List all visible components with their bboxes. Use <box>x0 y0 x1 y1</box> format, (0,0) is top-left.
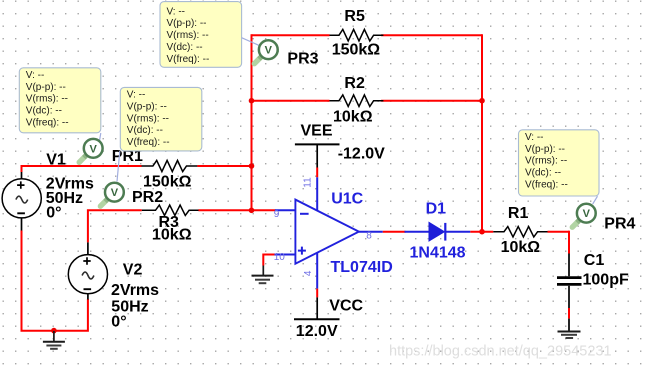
junction left vertical at R2 <box>249 98 255 104</box>
svg-text:100pF: 100pF <box>583 272 629 289</box>
svg-text:PR4: PR4 <box>604 216 635 233</box>
resistor R2 <box>330 95 384 107</box>
svg-text:2Vrms: 2Vrms <box>111 282 159 299</box>
probe callout box PR3 <box>160 2 242 68</box>
wire V2 up to R3 branch <box>88 210 142 254</box>
svg-text:R2: R2 <box>344 75 365 92</box>
ground G1 <box>43 331 65 349</box>
svg-text:12.0V: 12.0V <box>296 323 338 340</box>
svg-text:V1: V1 <box>46 151 66 168</box>
source V1 <box>2 179 41 218</box>
junction bottom ground node <box>51 328 57 334</box>
op-amp U1C triangle <box>295 200 359 264</box>
probe PR1 <box>79 139 102 162</box>
probe callout box PR2 <box>120 87 202 150</box>
svg-text:V: --: V: -- <box>167 6 186 17</box>
source V2 <box>68 255 107 294</box>
svg-text:V: --: V: -- <box>525 132 544 143</box>
svg-text:V(rms): --: V(rms): -- <box>525 156 567 167</box>
probe PR2 <box>100 183 123 206</box>
svg-text:V(rms): --: V(rms): -- <box>127 113 169 124</box>
op-amp input leads <box>274 177 383 288</box>
wire diode to output node <box>470 231 493 233</box>
svg-text:V(dc): --: V(dc): -- <box>525 168 561 179</box>
svg-text:https://blog.csdn.net/qq_29545: https://blog.csdn.net/qq_29545231 <box>389 344 612 360</box>
resistor R3 <box>142 205 199 215</box>
svg-text:1N4148: 1N4148 <box>410 245 466 262</box>
wire PR4 node down to C1 <box>568 231 570 277</box>
svg-text:V: V <box>265 45 273 57</box>
VEE supply symbol <box>295 144 340 177</box>
svg-text:V: V <box>583 208 591 220</box>
svg-text:4: 4 <box>303 270 314 276</box>
svg-text:V(freq): --: V(freq): -- <box>127 137 170 148</box>
svg-text:V(rms): --: V(rms): -- <box>167 30 209 41</box>
svg-text:10kΩ: 10kΩ <box>501 239 541 256</box>
wire C1 to ground <box>568 286 570 332</box>
svg-text:C1: C1 <box>584 252 605 269</box>
svg-text:TL074ID: TL074ID <box>331 259 393 276</box>
svg-text:V: V <box>90 143 98 155</box>
svg-text:11: 11 <box>303 177 314 188</box>
probe callout box PR1 <box>19 68 101 133</box>
svg-text:V(dc): --: V(dc): -- <box>167 42 203 53</box>
svg-text:PR3: PR3 <box>287 51 318 68</box>
svg-text:V(p-p): --: V(p-p): -- <box>127 102 167 113</box>
junction left vertical at 150k <box>249 163 255 169</box>
svg-text:0°: 0° <box>46 205 61 222</box>
VCC supply symbol <box>294 289 340 320</box>
svg-text:150kΩ: 150kΩ <box>332 42 381 59</box>
svg-text:150kΩ: 150kΩ <box>143 174 192 191</box>
svg-text:V: --: V: -- <box>26 70 45 81</box>
svg-text:VCC: VCC <box>329 298 363 315</box>
svg-text:V(p-p): --: V(p-p): -- <box>26 82 66 93</box>
svg-text:-12.0V: -12.0V <box>338 146 385 163</box>
svg-text:9: 9 <box>274 209 280 220</box>
probe PR4 <box>572 204 595 227</box>
svg-text:V(dc): --: V(dc): -- <box>26 106 62 117</box>
svg-text:PR2: PR2 <box>132 189 163 206</box>
junction output node <box>479 229 485 235</box>
svg-text:V(freq): --: V(freq): -- <box>167 54 210 65</box>
svg-text:10kΩ: 10kΩ <box>333 109 373 126</box>
ground G3 <box>558 332 581 339</box>
svg-text:10: 10 <box>274 252 286 263</box>
junction right vertical at R2 <box>479 98 485 104</box>
svg-text:V(freq): --: V(freq): -- <box>26 117 69 128</box>
svg-text:V: --: V: -- <box>127 90 146 101</box>
svg-text:VEE: VEE <box>301 123 333 140</box>
resistor R5 <box>330 29 384 41</box>
svg-text:R5: R5 <box>344 8 365 25</box>
ground G2 at op-amp non-inverting input <box>252 254 275 284</box>
leader PR1 <box>100 133 101 141</box>
wire V1 top to 150k <box>22 166 142 178</box>
resistor R1 <box>493 227 548 237</box>
leader PR4 <box>593 196 598 204</box>
svg-text:8: 8 <box>366 230 372 241</box>
svg-text:10kΩ: 10kΩ <box>152 227 192 244</box>
svg-text:V(freq): --: V(freq): -- <box>525 179 568 190</box>
svg-text:D1: D1 <box>426 201 447 218</box>
leader PR2 <box>117 151 120 182</box>
wire left feedback vertical <box>251 34 253 210</box>
capacitor C1 <box>557 278 582 285</box>
svg-text:V(p-p): --: V(p-p): -- <box>525 144 565 155</box>
svg-text:V: V <box>111 187 119 199</box>
probe PR3 <box>254 40 277 63</box>
wire R3 to op-amp pin9 <box>198 209 275 211</box>
svg-text:R1: R1 <box>508 205 529 222</box>
probe callout box PR4 <box>519 130 600 196</box>
svg-text:V(dc): --: V(dc): -- <box>127 125 163 136</box>
svg-text:U1C: U1C <box>331 191 363 208</box>
wire R1 to PR4 node <box>548 231 570 233</box>
leader PR3 <box>242 38 259 46</box>
svg-text:V2: V2 <box>123 262 143 279</box>
svg-text:0°: 0° <box>111 314 126 331</box>
wire 150k to inverting node <box>197 165 251 167</box>
wire R5 branch <box>252 34 483 36</box>
wire op-amp out to diode <box>383 231 406 233</box>
junction left vertical at pin9 wire <box>249 208 255 214</box>
svg-text:V(rms): --: V(rms): -- <box>26 94 68 105</box>
svg-text:V(p-p): --: V(p-p): -- <box>167 18 207 29</box>
diode D1 <box>405 222 471 241</box>
wire right feedback vertical <box>481 34 483 232</box>
resistor 150k (V1 input) <box>142 160 198 171</box>
wire bottom return <box>22 218 88 330</box>
wire R2 branch <box>252 100 483 102</box>
